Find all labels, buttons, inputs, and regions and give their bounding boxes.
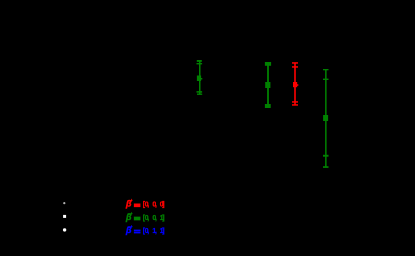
- legend marker dot: [63, 202, 65, 204]
- svg-text:[0,0,1]: [0,0,1]: [143, 215, 165, 222]
- errorbar cluster 1 (green, x~199): [197, 60, 203, 95]
- legend row 1 (red) : beta vec = [0, 0, 0]: [125, 199, 165, 209]
- legend row 2 (green) : beta vec = [0, 0, 1]: [125, 212, 165, 222]
- legend marker circle: [63, 228, 66, 231]
- errorbar cluster 2 (green, x~268): [265, 62, 271, 108]
- svg-text:[0,0,0]: [0,0,0]: [143, 202, 165, 209]
- svg-text:[0,1,1]: [0,1,1]: [143, 228, 165, 235]
- errorbar cluster 4 (green tall, x~325.7): [323, 69, 329, 168]
- errorbar cluster 3 (red, x~295): [292, 62, 298, 105]
- legend row 3 (blue) : beta vec = [0, 1, 1]: [125, 225, 165, 235]
- legend marker square: [63, 215, 66, 218]
